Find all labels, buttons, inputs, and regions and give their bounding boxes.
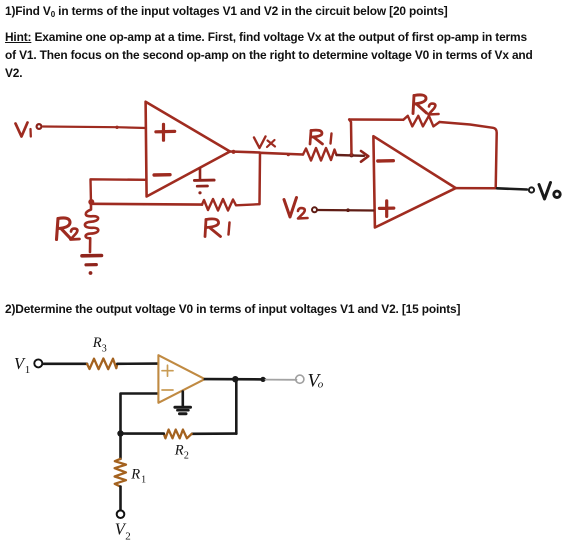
label R2 (left): [57, 218, 80, 240]
wire junction to R1: [119, 434, 122, 459]
wire V1 to op-amp U1 + input: [43, 127, 146, 129]
node Vx junction dot: [231, 150, 235, 154]
U3 minus sign: [162, 389, 173, 391]
wire R3 to U3 + input: [117, 362, 158, 365]
wire V1 to R3: [44, 362, 88, 365]
wire U3 - input from junction: [121, 394, 159, 434]
op-amp U3: [158, 355, 204, 403]
label R1 (series): [310, 130, 332, 144]
label R2 (top): [413, 95, 439, 115]
wire R2 to output node: [440, 122, 497, 188]
U2 minus input sign: [378, 159, 394, 163]
node V1 label: [14, 354, 30, 376]
U1 minus input sign: [154, 173, 170, 177]
label R1: [130, 467, 146, 486]
wire R1 to V2 terminal: [119, 487, 122, 511]
problem 1 heading text: [5, 2, 448, 20]
wire Vx to R1 (series): [260, 153, 303, 155]
wire U2 output to terminal (black pen): [497, 188, 527, 189]
wire U3 output: [205, 378, 265, 381]
junction blob on V2 wire: [346, 208, 350, 212]
ground symbol: [175, 407, 191, 414]
wire feedback down from output node: [235, 379, 238, 433]
node V1 label: [16, 123, 31, 137]
node Vx label: [254, 137, 275, 149]
node V2 label: [115, 520, 131, 543]
terminal V2: [117, 510, 125, 518]
wire Vx node down to feedback rail: [258, 153, 261, 204]
label R3: [92, 335, 107, 354]
terminal V2: [312, 207, 317, 212]
op-amp U1: [146, 102, 230, 197]
junction dot output node: [232, 376, 238, 382]
svg-text:3: 3: [102, 343, 107, 354]
svg-text:o: o: [318, 378, 324, 390]
resistor R2: [164, 430, 192, 439]
wire to Vo terminal (gray): [266, 379, 297, 381]
ground below R2: [82, 256, 102, 275]
label R2: [174, 442, 189, 461]
terminal V1: [34, 359, 42, 367]
terminal Vo: [529, 187, 534, 192]
resistor R2 (feedback top): [403, 116, 439, 127]
node V2 label: [284, 198, 308, 219]
wire R1 to inverting junction: [92, 203, 202, 206]
wire U1 output to node Vx: [230, 152, 260, 153]
wire node A up to feedback R2: [349, 120, 351, 156]
wire R1 to U2 minus input: [337, 154, 365, 157]
terminal Vo: [296, 375, 304, 383]
wire U2 output (red part): [456, 187, 497, 190]
junction dot inverting node: [117, 430, 123, 436]
svg-text:1: 1: [141, 475, 146, 486]
junction blob on V1 wire: [115, 126, 118, 129]
U2 plus input sign: [379, 201, 393, 217]
resistor R3: [87, 359, 117, 370]
wire V2 to U2 plus input: [318, 209, 373, 212]
svg-text:R: R: [92, 335, 102, 351]
wire feedback bottom right segment: [192, 432, 236, 435]
junction dot 2: [260, 377, 265, 382]
wire R2 to inverting junction: [121, 432, 164, 435]
svg-text:R: R: [130, 467, 140, 483]
ground at U1 output reference: [194, 168, 214, 194]
resistor R2 (to ground): [85, 204, 98, 252]
resistor R1 (series input): [303, 148, 337, 161]
wire U1 minus input to junction: [91, 179, 147, 203]
terminal V1: [37, 124, 42, 129]
svg-text:R: R: [174, 442, 184, 458]
label R1 (bottom feedback): [205, 219, 230, 237]
U3 plus sign: [162, 365, 173, 376]
hint paragraph: [5, 28, 533, 83]
node A (feedback tap): [349, 153, 353, 157]
U1 plus input sign: [156, 124, 175, 140]
svg-text:2: 2: [184, 451, 189, 462]
op-amp U2: [373, 136, 455, 227]
junction blob on Vx wire: [287, 153, 290, 156]
node Vo label: [308, 370, 324, 391]
node Vo label: [539, 183, 560, 200]
wire feedback top left segment: [349, 118, 403, 121]
svg-text:1: 1: [25, 364, 31, 376]
svg-text:2: 2: [125, 531, 131, 543]
ground stub from U3: [182, 392, 185, 407]
problem 2 heading text: [5, 300, 460, 318]
junction dot (inverting node): [88, 199, 94, 205]
resistor R1 (vertical): [115, 459, 126, 487]
arrow into U2 minus input: [361, 151, 368, 162]
resistor R1 (feedback, bottom): [202, 199, 260, 211]
